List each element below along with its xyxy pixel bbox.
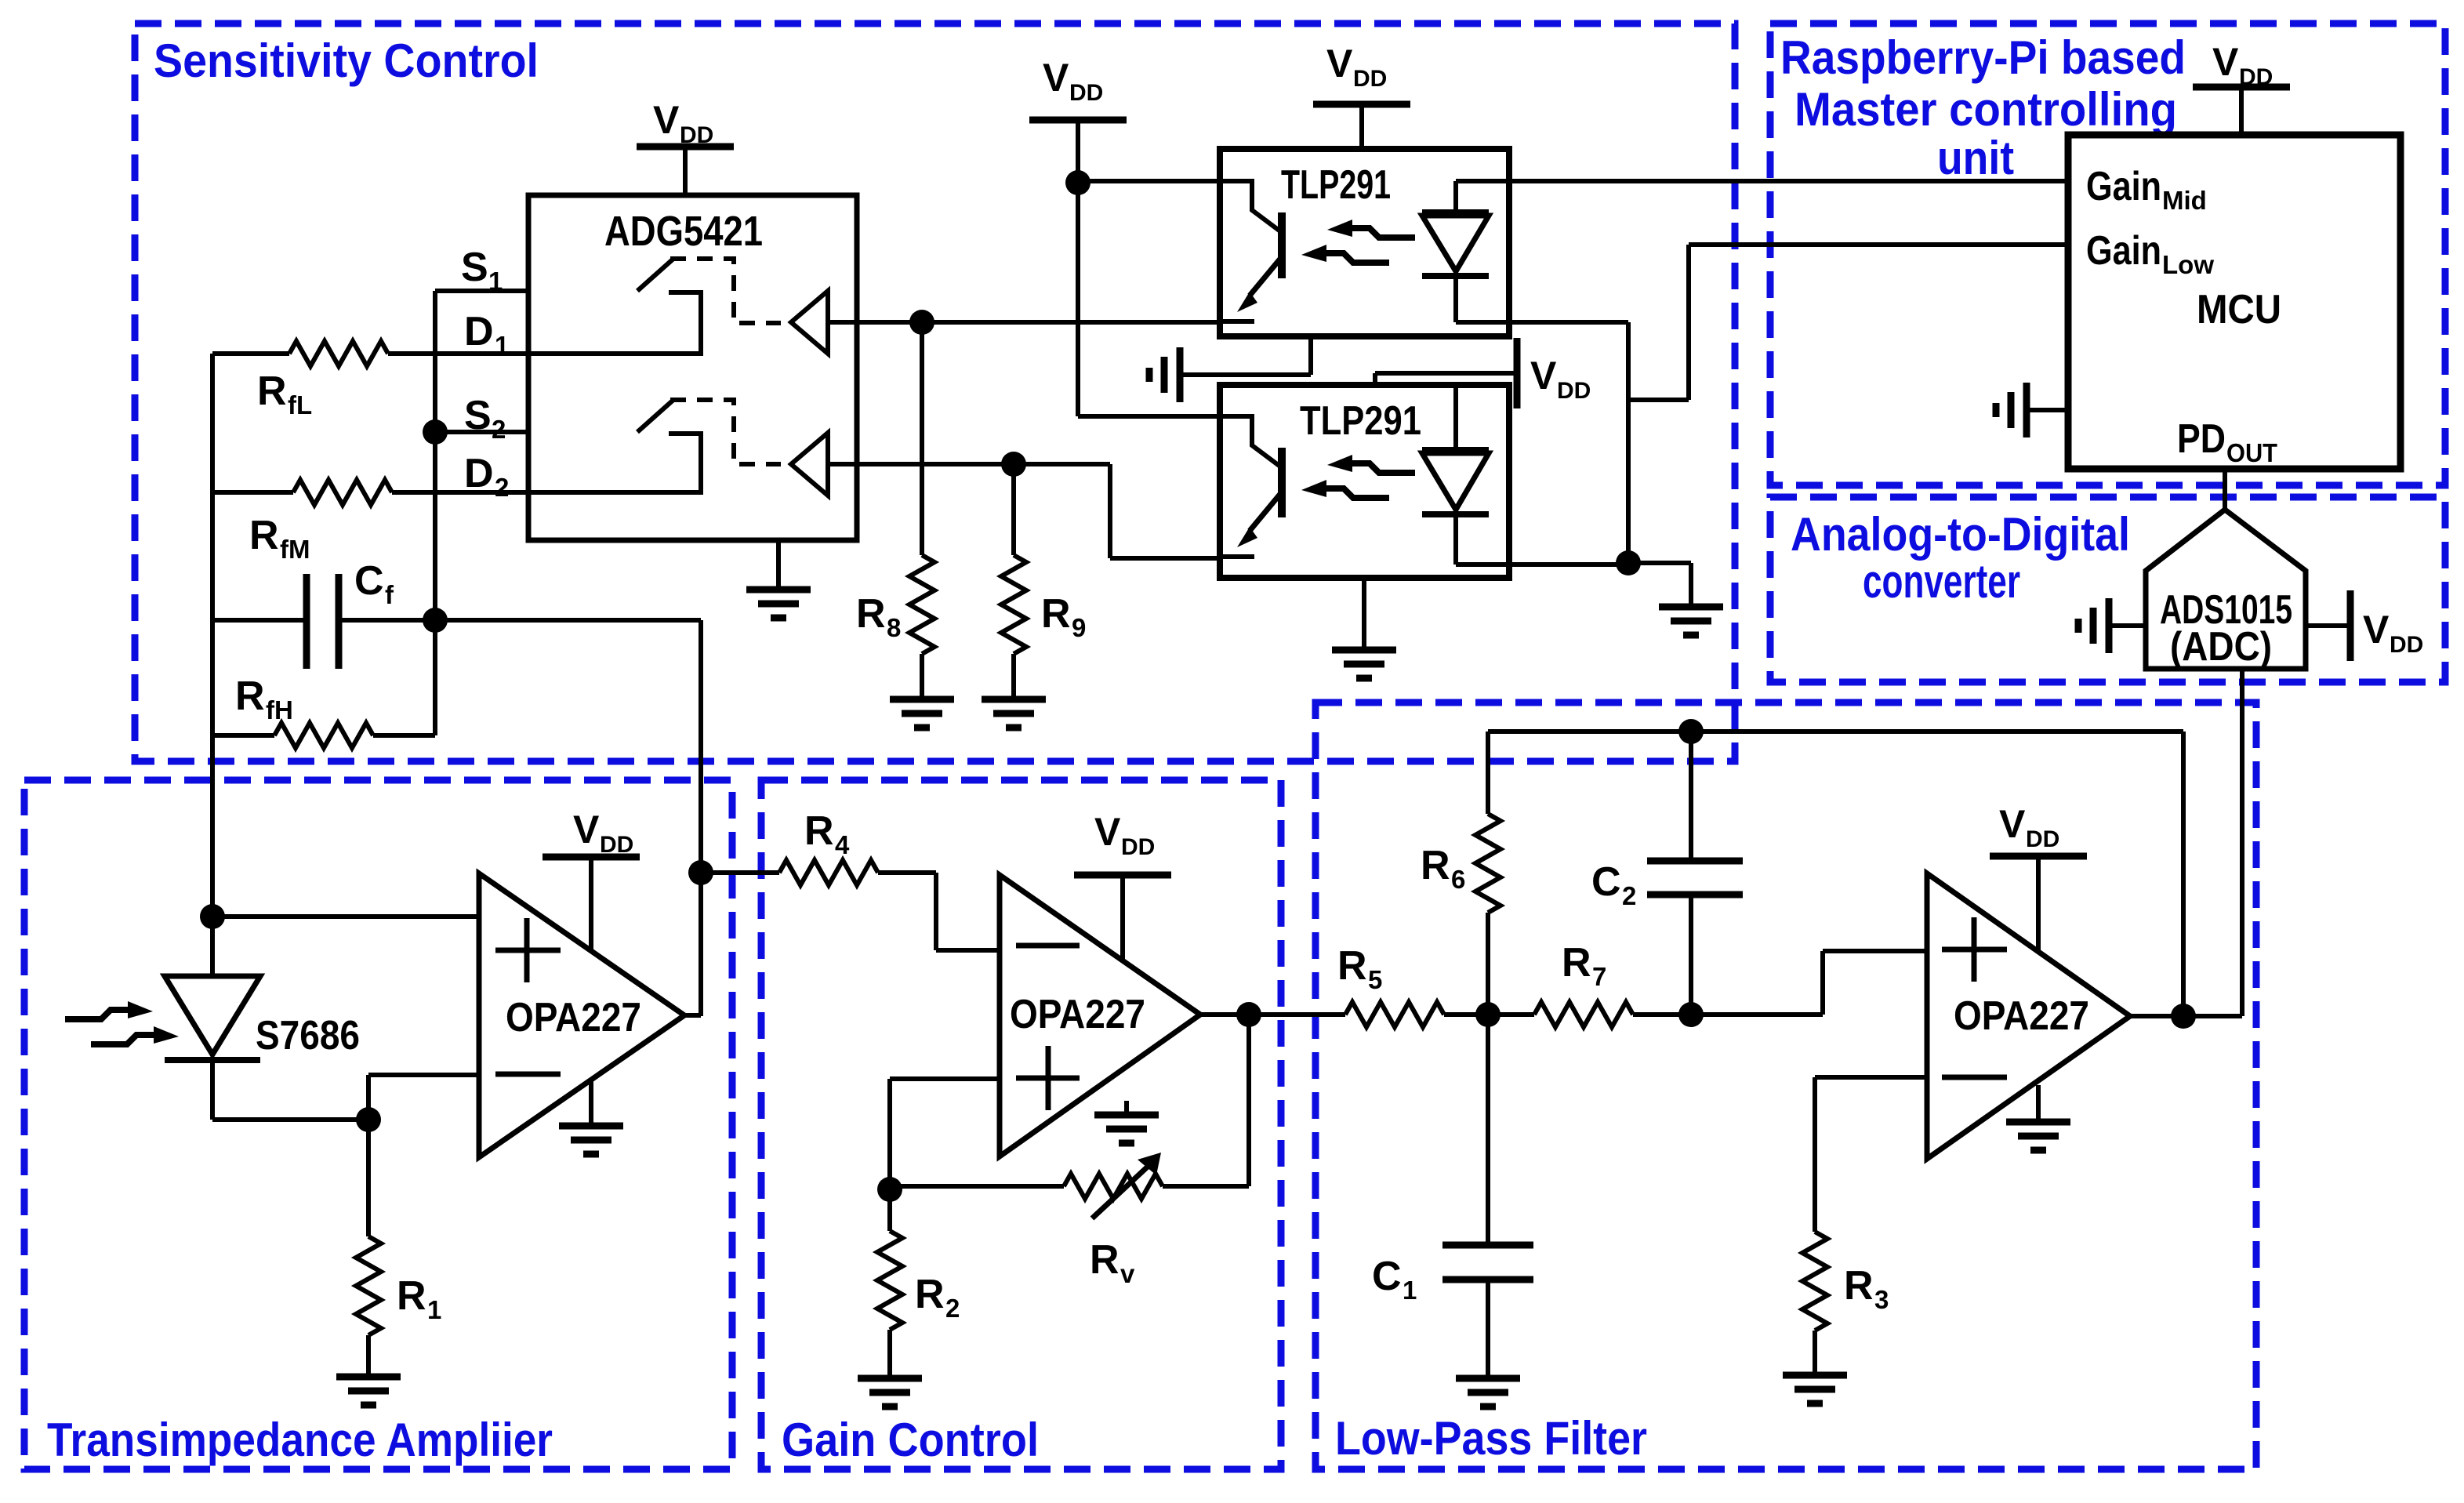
resistor R3 [1802, 1232, 1827, 1331]
driver buffer 2 [791, 433, 828, 496]
svg-text:2: 2 [495, 473, 509, 502]
U0 minus input wire [368, 1073, 479, 1077]
node C2 top junction [1678, 719, 1704, 744]
svg-text:C: C [1372, 1254, 1402, 1299]
ground TLP lower [1362, 578, 1366, 648]
svg-text:R: R [856, 591, 886, 637]
svg-text:R: R [257, 368, 287, 414]
U0 plus input wire [212, 914, 479, 919]
opto1 collector wire [1078, 179, 1220, 183]
svg-text:DD: DD [1121, 834, 1155, 860]
buffer1 output wire [828, 320, 1220, 325]
svg-text:2: 2 [945, 1294, 960, 1323]
node cathode junction [1616, 550, 1641, 575]
svg-text:unit: unit [1937, 132, 2014, 184]
svg-text:fH: fH [266, 695, 293, 724]
svg-text:V: V [1326, 42, 1353, 85]
LPF feedback vertical wire [2181, 732, 2186, 1016]
svg-text:2: 2 [492, 415, 506, 444]
svg-text:OPA227: OPA227 [506, 995, 641, 1040]
ground U4 [2036, 1085, 2041, 1120]
IC ADG5421 box [528, 195, 857, 540]
svg-text:OPA227: OPA227 [1954, 993, 2089, 1039]
LPF plus input wire [1691, 951, 1927, 1015]
Cf left lead wire [212, 618, 303, 623]
svg-text:R: R [915, 1272, 945, 1317]
node R1 junction [356, 1107, 381, 1132]
U4 minus sign [1942, 1075, 2007, 1080]
ground MCU [2027, 408, 2068, 412]
svg-text:DD: DD [2026, 826, 2059, 852]
raspberry-pi section box [1770, 24, 2445, 485]
svg-text:R: R [1041, 591, 1071, 637]
node R9 top junction [1001, 452, 1026, 477]
op-amp U4 OPA227 [1927, 873, 2130, 1159]
svg-text:Low: Low [2162, 250, 2214, 279]
svg-text:Analog-to-Digital: Analog-to-Digital [1791, 508, 2130, 561]
opto1 light arrow 2 [1301, 245, 1326, 262]
node R7-C2 junction [1678, 1002, 1704, 1027]
svg-text:(ADC): (ADC) [2170, 624, 2272, 670]
svg-text:R: R [249, 513, 279, 558]
ground C1 [1456, 1378, 1520, 1407]
svg-text:TLP291: TLP291 [1281, 162, 1391, 208]
VDD symbol TLP lower [1514, 338, 1521, 408]
ground R1 [336, 1377, 401, 1405]
svg-text:Gain Control: Gain Control [782, 1414, 1039, 1466]
U4 plus sign [1942, 917, 2007, 982]
svg-text:D: D [464, 309, 494, 354]
optocoupler U3 TLP291 box [1220, 385, 1509, 578]
svg-text:2: 2 [1622, 881, 1636, 910]
ground between optos [1182, 336, 1311, 375]
svg-text:OPA227: OPA227 [1010, 992, 1145, 1037]
IC ADS1015 pentagon [2146, 510, 2306, 669]
RfH leads wire [212, 733, 435, 738]
ground R2 [858, 1378, 922, 1407]
R1 top wire [366, 1075, 371, 1120]
sensitivity control section box [135, 24, 1735, 761]
capacitor Cf plates [307, 574, 339, 669]
svg-text:R: R [804, 808, 834, 854]
svg-text:R: R [1090, 1237, 1120, 1283]
cathode ground wire [1628, 563, 1691, 605]
feedback left rail wire [210, 354, 215, 917]
opto1 light arrow 1 [1327, 220, 1352, 237]
ground ADC [2109, 623, 2146, 628]
Cf right lead wire [342, 618, 701, 623]
svg-text:Transimpedance Ampliier: Transimpedance Ampliier [47, 1414, 553, 1466]
svg-text:MCU: MCU [2197, 287, 2281, 332]
driver buffer 1 [791, 291, 828, 354]
switch lever S2 [637, 400, 673, 432]
svg-text:R: R [1844, 1263, 1874, 1309]
svg-text:V: V [2212, 40, 2239, 84]
opto1 LED [1422, 212, 1489, 276]
ground R3 [1783, 1375, 1847, 1403]
LPF feedback top wire [1488, 729, 2183, 734]
svg-text:V: V [1530, 354, 1557, 398]
opto2 light arrow 1 [1327, 455, 1352, 472]
optocoupler U2 TLP291 box [1220, 149, 1509, 336]
LPF output wire [2130, 1014, 2242, 1018]
svg-text:R: R [235, 673, 265, 719]
resistor R6 [1486, 732, 1490, 814]
svg-text:V: V [1999, 802, 2026, 846]
node R5-R6-C1 junction [1475, 1002, 1501, 1027]
svg-text:v: v [1120, 1259, 1135, 1288]
opto2 cathode wire [1456, 562, 1628, 567]
svg-text:R: R [397, 1273, 426, 1319]
svg-text:f: f [385, 580, 394, 609]
VDD symbol U1 [1074, 872, 1171, 879]
node R2 junction [877, 1177, 902, 1202]
svg-text:S: S [461, 245, 488, 290]
VDD symbol TLP upper [1029, 117, 1127, 124]
node R8 top junction [909, 310, 934, 335]
ground U1 [1124, 1101, 1129, 1113]
adc section box [1770, 497, 2445, 682]
svg-text:V: V [1094, 810, 1121, 854]
svg-text:Mid: Mid [2162, 186, 2207, 215]
ground U0 [589, 1080, 593, 1124]
svg-text:D: D [464, 451, 494, 496]
svg-text:DD: DD [600, 832, 633, 858]
svg-text:9: 9 [1072, 613, 1086, 642]
resistor R1 [366, 1120, 371, 1236]
svg-text:DD: DD [1069, 80, 1103, 106]
svg-text:1: 1 [427, 1295, 441, 1324]
U1 minus sign [1016, 943, 1080, 949]
opto2 phototransistor [1220, 416, 1280, 467]
capacitor C2 [1689, 732, 1693, 861]
S1-S2 vertical wire [433, 291, 437, 735]
U0 plus sign [495, 918, 561, 982]
svg-text:DD: DD [1353, 66, 1387, 92]
svg-text:6: 6 [1451, 865, 1465, 894]
op-amp U1 OPA227 [1000, 875, 1200, 1156]
VDD symbol ADG [637, 143, 734, 151]
ground cathode node [1659, 607, 1723, 635]
low-pass filter section box [1315, 702, 2256, 1469]
RfM left lead wire [212, 490, 293, 495]
U1 output wire [1200, 1012, 1249, 1017]
ground R9 [982, 699, 1046, 728]
node U1 output junction [1236, 1002, 1261, 1027]
svg-text:ADG5421: ADG5421 [604, 208, 763, 255]
svg-text:V: V [573, 808, 600, 851]
resistor RfH [274, 723, 373, 748]
VDD symbol MCU [2193, 84, 2290, 91]
VDD symbol U4 [1990, 853, 2087, 860]
opto1 cathode wire [1456, 322, 1628, 563]
node U0 output junction [688, 860, 713, 885]
switch control dashed link 2 [670, 400, 781, 464]
svg-text:1: 1 [495, 331, 509, 360]
svg-text:Low-Pass Filter: Low-Pass Filter [1335, 1412, 1647, 1465]
resistor RfL [289, 341, 388, 366]
svg-text:R: R [1421, 843, 1450, 888]
resistor R8 [920, 322, 924, 555]
svg-text:R: R [1337, 943, 1367, 989]
switch control dashed link 1 [670, 259, 781, 323]
node photodiode junction [200, 904, 225, 929]
U1 plus input wire [890, 1079, 1000, 1189]
opto2 collector feed wire [1078, 183, 1220, 416]
svg-text:OUT: OUT [2226, 438, 2277, 467]
GainLow wire [1628, 245, 2068, 400]
svg-text:DD: DD [2239, 64, 2273, 90]
RfL left lead wire [212, 351, 289, 356]
MCU box [2068, 135, 2400, 469]
svg-text:3: 3 [1874, 1285, 1889, 1314]
gain control section box [761, 780, 1281, 1469]
svg-text:7: 7 [1592, 962, 1606, 991]
op-amp U0 OPA227 [479, 873, 684, 1157]
S2 pin wire [435, 430, 528, 434]
svg-text:S7686: S7686 [256, 1013, 360, 1058]
svg-text:1: 1 [1403, 1276, 1417, 1305]
opto1 phototransistor [1220, 181, 1280, 231]
svg-text:V: V [2363, 608, 2390, 652]
node Cf junction [423, 608, 448, 633]
VDD symbol U0 [543, 854, 640, 861]
svg-text:C: C [354, 558, 384, 604]
node LPF output junction [2171, 1004, 2196, 1029]
svg-text:Gain: Gain [2086, 164, 2161, 209]
svg-text:PD: PD [2177, 416, 2226, 462]
svg-text:fM: fM [280, 535, 310, 564]
VDD symbol ADC [2306, 623, 2347, 628]
switch lever S1 [637, 259, 673, 291]
capacitor C1 [1486, 1015, 1490, 1245]
light arrow into photodiode 1 [128, 1001, 153, 1018]
svg-text:fL: fL [288, 390, 312, 419]
resistor R9 [1011, 464, 1016, 555]
transimpedance section box [24, 780, 732, 1469]
resistor R5 [1249, 1012, 1345, 1017]
ADC output wire [2240, 669, 2244, 1016]
VDD symbol TLP box top [1313, 101, 1410, 108]
opto2 LED [1422, 450, 1489, 514]
U1 feedback wire [1247, 1015, 1251, 1186]
S1 pin wire [435, 289, 528, 293]
svg-text:V: V [1043, 56, 1069, 100]
resistor R2 [887, 1189, 892, 1231]
photodiode D1 S7686 [210, 917, 215, 976]
svg-text:Master controlling: Master controlling [1794, 83, 2177, 136]
svg-text:Sensitivity Control: Sensitivity Control [154, 34, 539, 87]
U1 plus sign [1016, 1046, 1080, 1110]
svg-text:Gain: Gain [2086, 228, 2161, 274]
svg-text:Raspberry-Pi based: Raspberry-Pi based [1780, 31, 2186, 84]
svg-text:5: 5 [1368, 965, 1382, 994]
svg-text:DD: DD [1557, 378, 1591, 404]
svg-text:DD: DD [2390, 632, 2423, 658]
svg-text:1: 1 [488, 267, 503, 296]
opto2 light arrow 2 [1301, 480, 1326, 497]
svg-text:8: 8 [887, 613, 901, 642]
node opto1 collector junction [1065, 170, 1090, 195]
ground R8 [890, 699, 954, 728]
ground ADG [776, 540, 781, 588]
buffer2 output wire [828, 464, 1220, 558]
svg-text:V: V [653, 98, 680, 142]
PDout wire [2223, 469, 2227, 511]
LPF minus input wire [1815, 1077, 1927, 1232]
svg-text:R: R [1562, 940, 1591, 986]
photodiode bottom wire [212, 1117, 368, 1122]
D2 wire to pocket [392, 434, 701, 492]
svg-text:C: C [1591, 859, 1621, 905]
resistor R4 [779, 860, 878, 885]
svg-text:4: 4 [835, 830, 850, 859]
svg-text:converter: converter [1863, 555, 2020, 608]
node S2 junction [423, 419, 448, 445]
GainMid wire [1456, 179, 2068, 183]
variable resistor Rv [890, 1184, 1064, 1189]
U0 output apex wire [684, 1013, 701, 1018]
light arrow into photodiode 2 [154, 1026, 179, 1044]
resistor R7 [1534, 1002, 1633, 1027]
svg-text:DD: DD [680, 122, 713, 148]
Rv arrow [1092, 1165, 1149, 1218]
D1 wire to pocket [388, 292, 701, 354]
feedback to output vertical wire [699, 620, 703, 1016]
resistor RfM [293, 480, 392, 505]
svg-text:TLP291: TLP291 [1300, 398, 1421, 444]
U0 minus sign [495, 1072, 561, 1077]
